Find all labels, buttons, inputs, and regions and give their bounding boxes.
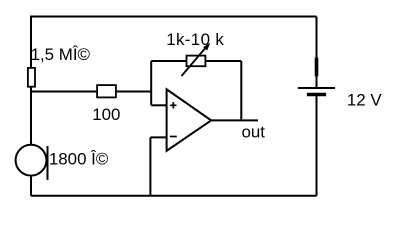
svg-text:1k-10 k: 1k-10 k (166, 30, 224, 49)
svg-text:1,5 MÎ©: 1,5 MÎ© (31, 45, 91, 64)
svg-text:out: out (242, 123, 266, 142)
svg-text:100: 100 (92, 105, 120, 124)
svg-text:1800 Î©: 1800 Î© (49, 149, 109, 168)
svg-text:12 V: 12 V (347, 91, 382, 110)
